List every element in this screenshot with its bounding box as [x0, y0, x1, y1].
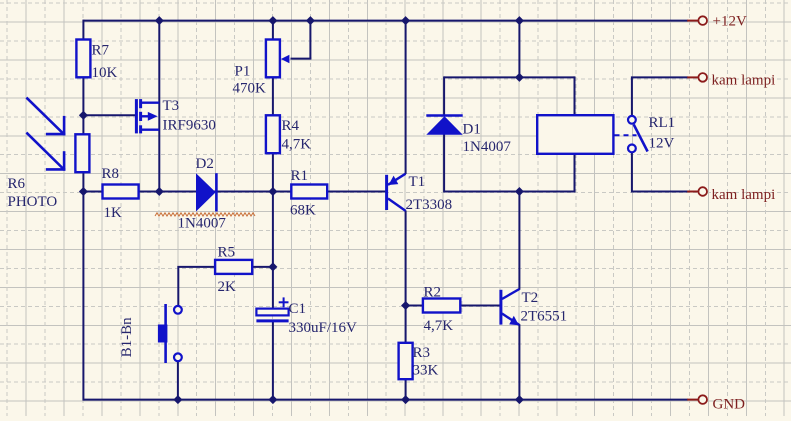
svg-text:R4: R4	[282, 118, 300, 134]
wire button bottom to GND rail	[177, 361, 179, 401]
diode D2 anode triangle	[196, 173, 216, 211]
wire switch top lead up and to kam lampi terminal	[632, 77, 688, 116]
junction node P1 top / +12V rail	[268, 16, 277, 25]
svg-text:T1: T1	[409, 174, 426, 190]
wire R5 left lead and drop to button	[178, 267, 215, 306]
transistor T3 drain stub (bottom)	[141, 128, 160, 130]
wire R1 left lead	[273, 191, 291, 193]
pushbutton B1-Bn bottom terminal	[174, 353, 182, 361]
wire T3 gate lead from divider node	[83, 114, 135, 116]
junction node R3 to GND rail	[401, 395, 410, 404]
photoresistor R6 light arrow 2	[26, 133, 65, 171]
wire D2 row from T3 drain node to R4/R1 node	[159, 191, 273, 193]
wire top +12V rail	[83, 20, 687, 22]
svg-text:D1: D1	[463, 122, 481, 138]
terminal GND circle	[698, 395, 707, 404]
wire R7 bottom to R6 top (gate node)	[82, 76, 84, 135]
svg-text:kam lampi: kam lampi	[712, 73, 776, 89]
potentiometer P1 body	[266, 40, 280, 78]
junction node D1-relay branch	[515, 73, 524, 82]
svg-text:kam lampi: kam lampi	[712, 187, 776, 203]
svg-text:+12V: +12V	[713, 13, 747, 29]
transistor T1 base bar	[385, 175, 388, 210]
svg-text:R7: R7	[92, 43, 110, 59]
relay RL1 switch top contact	[628, 116, 636, 124]
wire T2 emitter down to GND rail	[518, 324, 520, 400]
svg-text:D2: D2	[196, 156, 214, 172]
wire bottom GND rail	[83, 399, 687, 401]
photoresistor R6 body	[75, 134, 89, 172]
junction node R4/D2 cathode/R1	[268, 187, 277, 196]
capacitor C1 top plate	[256, 309, 288, 316]
wire supply drop x519 from +12V to relay/D1 branch	[518, 21, 520, 78]
svg-text:C1: C1	[289, 301, 307, 317]
diode D2 spell-squiggle	[155, 213, 255, 216]
junction node button to GND rail	[173, 395, 182, 404]
svg-text:R6: R6	[8, 176, 26, 192]
diode D2 cathode bar	[215, 173, 218, 211]
svg-text:4,7K: 4,7K	[424, 318, 454, 334]
svg-text:R2: R2	[424, 285, 442, 301]
svg-text:R3: R3	[413, 345, 431, 361]
junction node T2 emitter to GND rail	[515, 395, 524, 404]
terminal kam lampi (bottom) stub	[687, 191, 698, 193]
diode D1 anode triangle	[426, 116, 462, 135]
wire D1 bottom lead	[443, 134, 445, 193]
transistor T3 gate bar	[135, 99, 138, 133]
svg-text:T3: T3	[163, 98, 180, 114]
wire left rail top segment (R7 top lead)	[82, 20, 84, 41]
svg-text:R8: R8	[102, 166, 120, 182]
transistor T3 bulk stub with arrow	[141, 115, 150, 117]
svg-text:1N4007: 1N4007	[463, 139, 512, 155]
svg-text:4,7K: 4,7K	[282, 137, 312, 153]
svg-text:470K: 470K	[233, 81, 267, 97]
svg-text:R1: R1	[291, 168, 309, 184]
wire relay coil bottom lead	[574, 153, 576, 193]
pushbutton B1-Bn cap	[158, 325, 168, 343]
junction node C1 to GND rail	[268, 395, 277, 404]
relay RL1 link dashed line	[615, 134, 637, 136]
pushbutton B1-Bn top terminal	[174, 306, 182, 314]
svg-text:PHOTO: PHOTO	[8, 194, 58, 210]
svg-text:B1-Bn: B1-Bn	[119, 317, 135, 358]
terminal +12V stub	[687, 20, 698, 22]
svg-text:IRF9630: IRF9630	[163, 118, 216, 134]
potentiometer P1 wiper arrow	[281, 55, 290, 64]
wire R2 left lead	[406, 305, 423, 307]
wire T1 emitter drop from +12V	[405, 21, 407, 174]
svg-text:12V: 12V	[649, 136, 675, 152]
junction node P1 wiper / +12V rail	[306, 16, 315, 25]
junction node T1 collector/R2/R3	[401, 301, 410, 310]
junction node T1 emitter / +12V rail	[401, 16, 410, 25]
wire R2 right lead to T2 base	[460, 305, 499, 307]
transistor T1 emitter (arrow into base)	[388, 174, 406, 185]
svg-text:R5: R5	[218, 245, 236, 261]
terminal GND stub	[687, 399, 698, 401]
junction node T3 source / +12V rail	[155, 16, 164, 25]
junction node R6/R8 bottom left	[79, 187, 88, 196]
wire node to C1 top	[272, 191, 274, 310]
wire R1 right lead to T1 base	[327, 191, 385, 193]
wire switch bottom lead down and to kam lampi terminal	[632, 152, 688, 191]
junction node R8/T3 drain/D2 anode	[155, 187, 164, 196]
transistor T2 base bar	[499, 290, 502, 325]
resistor R4 body	[266, 115, 280, 153]
transistor T3 channel bar segments	[139, 99, 142, 133]
svg-text:10K: 10K	[92, 65, 118, 81]
transistor T3 source stub (top)	[141, 101, 160, 103]
svg-text:2T3308: 2T3308	[406, 197, 453, 213]
resistor R8 body	[103, 185, 139, 199]
capacitor C1 plus sign	[279, 297, 289, 307]
relay RL1 switch blade	[634, 125, 648, 152]
svg-text:330uF/16V: 330uF/16V	[289, 320, 358, 336]
svg-text:T2: T2	[522, 290, 539, 306]
junction node supply drop / +12V rail	[515, 16, 524, 25]
wire relay coil top lead	[574, 76, 576, 116]
transistor T1 collector	[388, 199, 406, 211]
wire R8 right lead to T3 drain node	[139, 191, 160, 193]
resistor R3 body	[399, 343, 413, 379]
transistor T2 emitter (arrow out)	[502, 314, 519, 326]
wire P1 bottom to R4 top	[272, 76, 274, 116]
photoresistor R6 light arrow 1	[26, 98, 65, 136]
wire vertical x159 from +12V through T3 source/drain to D2 node	[158, 21, 160, 192]
svg-text:1N4007: 1N4007	[178, 216, 227, 232]
svg-text:2K: 2K	[218, 279, 237, 295]
svg-text:68K: 68K	[290, 203, 316, 219]
terminal kam lampi (top) stub	[687, 76, 698, 78]
wire D1 top lead	[443, 76, 445, 116]
junction node R7/R6/T3 gate	[79, 111, 88, 120]
capacitor C1 bottom plate	[256, 319, 288, 322]
pushbutton B1-Bn actuator bar	[164, 304, 167, 363]
svg-text:2T6551: 2T6551	[521, 309, 568, 325]
transistor T2 collector	[502, 289, 519, 299]
junction node R5 tap on C1 column	[268, 262, 277, 271]
wire R8 left lead	[83, 191, 102, 193]
relay RL1 switch bottom contact	[628, 145, 636, 153]
junction node relay rail / T2 collector	[515, 187, 524, 196]
resistor R5 body	[215, 260, 252, 274]
resistor R7 body	[76, 40, 90, 78]
wire R4 bottom to node	[272, 152, 274, 192]
terminal kam lampi (bottom) circle	[698, 187, 707, 196]
wire rail y191 D1 anode to relay bottom	[444, 191, 574, 193]
terminal kam lampi (top) circle	[698, 73, 707, 82]
wire R5 right lead to vertical node	[252, 266, 273, 268]
wire branch row y77 from D1 top to relay top	[444, 76, 574, 78]
wire P1 top lead from +12V	[272, 20, 274, 41]
resistor R1 body	[291, 185, 327, 199]
wire R3 bottom to GND rail	[405, 379, 407, 400]
wire T1 collector down to R2/R3 node	[405, 211, 407, 343]
svg-text:GND: GND	[713, 397, 746, 413]
relay RL1 coil box	[537, 115, 613, 154]
wire C1 bottom to GND rail	[272, 322, 274, 401]
wire P1 wiper return drop from +12V	[309, 20, 311, 59]
wire R6 bottom to bottom rail	[82, 171, 84, 400]
wire P1 wiper horizontal	[291, 58, 312, 60]
svg-text:1K: 1K	[104, 205, 123, 221]
svg-text:P1: P1	[235, 64, 251, 80]
resistor R2 body	[423, 299, 460, 313]
svg-text:RL1: RL1	[649, 115, 676, 131]
wire T2 collector up to y191 rail	[518, 192, 520, 290]
diode D1 cathode bar	[426, 114, 462, 117]
svg-text:33K: 33K	[413, 363, 439, 379]
terminal +12V circle	[698, 16, 707, 25]
